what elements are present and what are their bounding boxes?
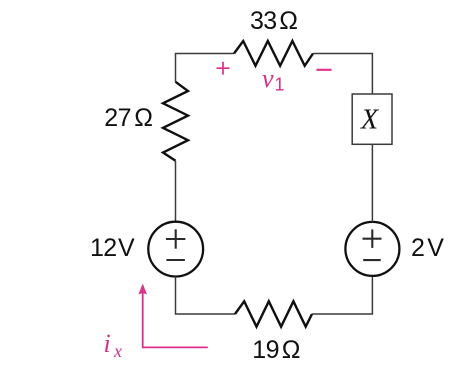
- voltage source 12V circle: [148, 222, 203, 277]
- svg-text:33: 33: [250, 7, 277, 35]
- voltage source 2V circle: [345, 222, 399, 276]
- element X box: [352, 94, 392, 144]
- 2V source minus sign: [363, 259, 381, 261]
- 2V source plus sign: [363, 229, 382, 248]
- svg-text:Ω: Ω: [279, 7, 297, 35]
- wire left middle segment: [175, 161, 177, 222]
- svg-text:12: 12: [90, 234, 117, 262]
- resistor 27 ohm (left): [163, 82, 188, 161]
- wire top-left horizontal segment: [176, 54, 235, 82]
- svg-text:V: V: [427, 234, 444, 262]
- svg-text:i: i: [104, 329, 111, 358]
- svg-text:Ω: Ω: [134, 104, 152, 132]
- wire right middle segment (X box to 2V source): [371, 144, 373, 222]
- svg-text:x: x: [113, 341, 122, 361]
- svg-text:1: 1: [275, 75, 285, 95]
- svg-text:Ω: Ω: [282, 336, 300, 364]
- svg-text:X: X: [360, 105, 379, 136]
- svg-text:v: v: [262, 64, 274, 93]
- resistor 33 ohm (top): [234, 41, 313, 66]
- svg-text:2: 2: [411, 234, 424, 262]
- wire top-right segment: [313, 54, 372, 95]
- svg-text:27: 27: [104, 104, 131, 132]
- wire left bottom segment: [176, 277, 236, 315]
- 12V source minus sign: [166, 259, 185, 261]
- svg-text:V: V: [118, 234, 135, 262]
- current arrow i_x (magenta): [143, 292, 208, 348]
- polarity plus of v1 (magenta): [217, 62, 230, 75]
- 12V source plus sign: [166, 229, 185, 248]
- svg-text:19: 19: [252, 336, 279, 364]
- arrowhead of i_x: [138, 284, 147, 295]
- polarity minus of v1 (magenta): [316, 69, 331, 71]
- resistor 19 ohm (bottom): [235, 301, 312, 326]
- wire bottom-right segment: [312, 276, 372, 314]
